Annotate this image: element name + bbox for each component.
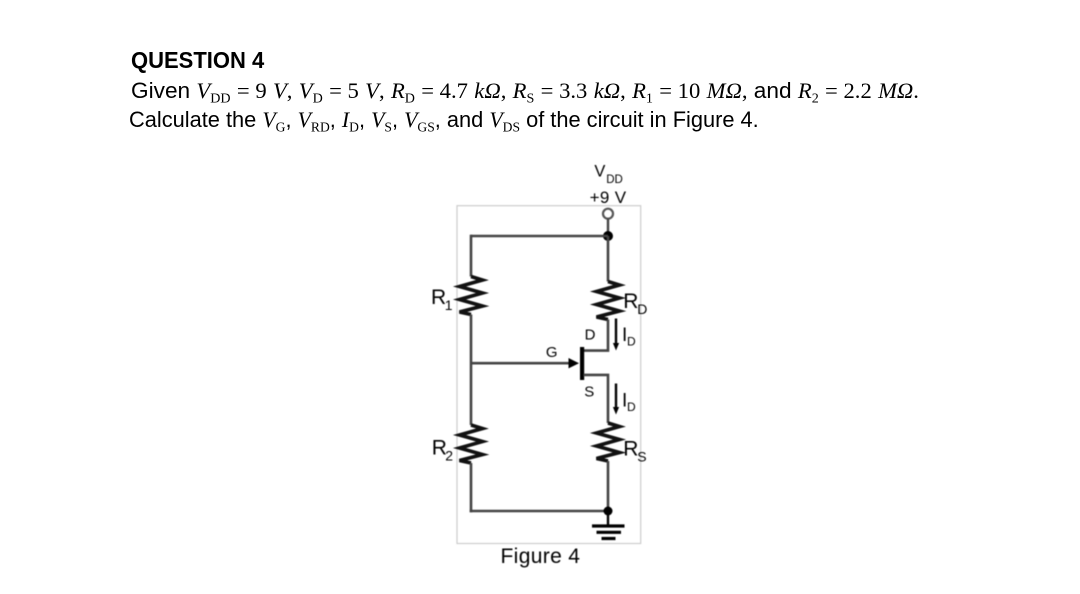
- svg-text:D: D: [585, 327, 596, 344]
- svg-text:D: D: [637, 301, 647, 317]
- transistor Q1 bar: [580, 347, 584, 380]
- figure image border: [457, 206, 641, 544]
- resistor R1: [460, 277, 483, 315]
- svg-text:R: R: [623, 290, 638, 313]
- svg-text:D: D: [627, 335, 636, 349]
- wire left vertical upper: [470, 235, 473, 277]
- wire left vertical lower: [470, 463, 473, 512]
- current arrow ID bottom: [613, 384, 619, 415]
- resistor RD: [597, 282, 620, 320]
- gate wire: [471, 362, 570, 365]
- wire terminal to node: [607, 219, 609, 236]
- wire source to RS: [584, 375, 609, 423]
- label R1: [431, 286, 453, 313]
- svg-text:S: S: [637, 449, 646, 465]
- calculate line: [129, 107, 759, 137]
- VDD terminal circle: [603, 209, 613, 219]
- wire top horizontal: [471, 235, 608, 238]
- label ID top: [622, 325, 636, 349]
- svg-text:G: G: [546, 344, 558, 361]
- ground node dot: [604, 507, 613, 516]
- svg-text:2: 2: [445, 448, 453, 464]
- wire right vertical upper (node to RD): [607, 236, 610, 282]
- label ID bottom: [622, 390, 636, 414]
- label R2: [432, 437, 454, 464]
- svg-text:DD: DD: [606, 174, 623, 186]
- node junction dot: [603, 231, 613, 241]
- given line: [131, 78, 919, 108]
- title: [131, 47, 264, 74]
- resistor R2: [460, 425, 483, 463]
- wire bottom horizontal: [470, 510, 608, 513]
- svg-text:S: S: [584, 383, 594, 400]
- label RD: [623, 290, 647, 317]
- resistor RS: [597, 423, 620, 461]
- ground symbol: [592, 511, 625, 539]
- svg-text:1: 1: [445, 297, 453, 313]
- wire RD to drain: [584, 320, 609, 351]
- svg-text:+9 V: +9 V: [590, 188, 627, 207]
- current arrow ID top: [613, 319, 619, 351]
- svg-text:D: D: [627, 400, 636, 414]
- svg-text:Figure 4: Figure 4: [501, 545, 581, 568]
- gate arrowhead: [569, 358, 580, 368]
- svg-text:R: R: [623, 438, 638, 461]
- wire RS to ground node: [607, 461, 610, 511]
- wire left vertical middle: [470, 315, 473, 426]
- svg-text:V: V: [594, 163, 605, 181]
- label RS: [623, 438, 646, 465]
